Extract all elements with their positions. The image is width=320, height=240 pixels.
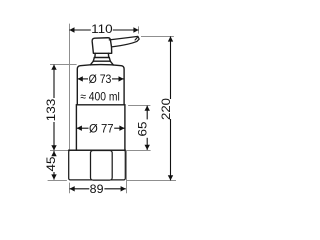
svg-text:220: 220 <box>159 98 173 120</box>
svg-text:Ø 73: Ø 73 <box>89 72 112 86</box>
svg-text:89: 89 <box>90 182 104 196</box>
svg-text:≈ 400 ml: ≈ 400 ml <box>80 90 120 104</box>
svg-text:Ø 77: Ø 77 <box>89 121 114 135</box>
svg-text:133: 133 <box>44 98 58 121</box>
svg-text:65: 65 <box>136 121 150 136</box>
svg-text:45: 45 <box>44 156 58 171</box>
svg-text:110: 110 <box>91 22 113 36</box>
